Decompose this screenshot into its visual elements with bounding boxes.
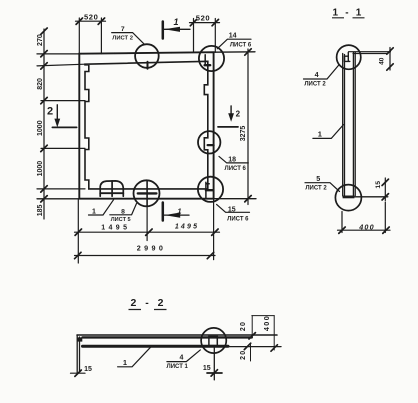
2-2 dim 400 line xyxy=(273,316,275,350)
svg-text:ЛИСТ 5: ЛИСТ 5 xyxy=(111,217,131,223)
svg-text:2: 2 xyxy=(236,109,241,118)
svg-text:7: 7 xyxy=(121,26,125,33)
top-right corner plate detail xyxy=(204,55,206,65)
detail circle bottom-right corner xyxy=(198,177,223,202)
svg-text:8: 8 xyxy=(121,208,125,215)
extension line x101 xyxy=(100,18,102,54)
2-2 hanging rib below circle xyxy=(213,346,215,380)
3275 ticks xyxy=(245,49,251,202)
top dimension line 520 left xyxy=(76,20,106,22)
svg-text:1000: 1000 xyxy=(37,161,44,177)
plan outer bottom edge extension xyxy=(37,198,256,200)
svg-text:1000: 1000 xyxy=(37,120,44,136)
svg-text:2990: 2990 xyxy=(137,243,167,252)
svg-text:185: 185 xyxy=(37,204,44,216)
detail circle top-middle xyxy=(135,44,159,68)
svg-text:18: 18 xyxy=(228,156,236,163)
svg-text:14: 14 xyxy=(229,33,237,40)
2-2 dim 20 top line xyxy=(251,316,253,338)
leader callout 15 plan xyxy=(217,204,250,212)
left chain ticks xyxy=(41,28,47,202)
left extension y100.6 xyxy=(41,100,85,102)
svg-text:3275: 3275 xyxy=(240,126,247,142)
svg-text:15: 15 xyxy=(375,181,382,189)
bottom dimension line 2990 xyxy=(75,255,216,257)
2-2 left end rib double xyxy=(77,335,79,374)
svg-text:1495: 1495 xyxy=(101,224,130,231)
top-middle circle tick detail xyxy=(147,62,149,69)
svg-text:ЛИСТ 6: ЛИСТ 6 xyxy=(230,43,252,49)
2-2 left 15 dim line xyxy=(71,372,86,374)
left dimension chain line xyxy=(43,29,45,219)
detail circle top-right corner xyxy=(199,46,224,71)
leader callout 18 xyxy=(219,156,248,163)
2-2 dim ticks xyxy=(244,333,277,352)
1-1 leader 4 xyxy=(304,65,339,79)
leader callout 1 dome xyxy=(89,200,114,215)
svg-text:1: 1 xyxy=(173,17,178,27)
svg-text:400: 400 xyxy=(358,223,375,232)
left extension y148.4 xyxy=(41,147,85,149)
1-1 panel left double line xyxy=(343,54,345,197)
leader callout 7 xyxy=(112,33,145,45)
svg-text:1: 1 xyxy=(92,209,96,216)
1-1 leader 1 xyxy=(313,125,344,139)
extension below left corner xyxy=(77,199,79,263)
2-2 dim 20 bottom line xyxy=(250,345,252,362)
1-1 top flange double line xyxy=(349,52,391,54)
svg-text:1: 1 xyxy=(177,207,181,216)
2-2 slab frame bottom chord xyxy=(83,345,229,348)
svg-text:ЛИСТ 6: ЛИСТ 6 xyxy=(227,217,249,223)
extension line x214 xyxy=(214,19,216,53)
1-1 leader 5 xyxy=(305,183,340,192)
dome horizontal band xyxy=(100,192,123,194)
2-2 slab bottom extension xyxy=(225,346,281,348)
1-1 bottom flange line xyxy=(354,196,387,198)
svg-text:ЛИСТ 2: ЛИСТ 2 xyxy=(304,81,326,87)
svg-text:400: 400 xyxy=(262,315,271,331)
1-1 top detail circle xyxy=(337,45,361,69)
bottom dimension line 1495 xyxy=(75,231,220,233)
detail circle bottom-middle xyxy=(134,180,160,206)
plan inner bottom edge extension xyxy=(37,188,85,190)
2-2 circle box detail xyxy=(209,336,217,345)
svg-text:40: 40 xyxy=(379,57,386,65)
extension line x191 xyxy=(193,19,195,52)
1-1 top hook detail xyxy=(345,52,350,61)
svg-text:520: 520 xyxy=(196,14,210,23)
svg-text:1: 1 xyxy=(123,358,127,367)
1-1 dim 40 line xyxy=(389,48,391,71)
right dimension 3275 line xyxy=(247,49,249,205)
2-2 right 15 tick xyxy=(207,370,222,376)
section marker 2 right xyxy=(230,106,232,117)
1-1 bottom detail circle xyxy=(335,185,361,211)
1-1 bottom bearing bar xyxy=(343,196,355,199)
extension below mid circle xyxy=(146,206,148,240)
section marker 1 bottom xyxy=(162,203,165,221)
svg-text:5: 5 xyxy=(316,174,320,183)
dome insert at bottom-left xyxy=(100,181,123,196)
leader callout 8 xyxy=(110,204,137,215)
svg-text:2 - 2: 2 - 2 xyxy=(130,297,166,309)
svg-text:ЛИСТ 6: ЛИСТ 6 xyxy=(225,166,247,172)
1-1 400 extensions xyxy=(342,202,385,233)
svg-text:15: 15 xyxy=(84,366,92,373)
top dimension line 520 right xyxy=(190,22,220,24)
2-2 left corner gusset xyxy=(77,337,82,341)
svg-text:20: 20 xyxy=(240,321,247,331)
2-2 slab top deck line xyxy=(77,334,277,336)
2-2 slab frame top chord xyxy=(83,336,252,338)
svg-text:4: 4 xyxy=(315,70,319,79)
svg-text:ЛИСТ 1: ЛИСТ 1 xyxy=(167,364,189,370)
plan inner top edge extension xyxy=(37,64,85,66)
bottom-right corner plate detail xyxy=(206,182,209,198)
2-2 leader 4 xyxy=(167,350,200,362)
extension line x79 xyxy=(78,18,80,54)
svg-text:4: 4 xyxy=(180,355,184,362)
1-1 panel right double line xyxy=(353,52,355,195)
svg-text:20: 20 xyxy=(240,350,247,360)
svg-text:1495: 1495 xyxy=(175,223,199,230)
svg-text:520: 520 xyxy=(84,13,98,22)
2-2 leader 1 xyxy=(118,346,152,367)
dome center rib xyxy=(111,181,113,196)
plan outer top edge extension xyxy=(37,52,255,54)
1-1 dim 15 line xyxy=(384,178,386,201)
detail circle middle-right xyxy=(198,131,220,153)
plan inner wall with notches xyxy=(85,61,208,189)
svg-text:1: 1 xyxy=(318,130,322,139)
svg-text:270: 270 xyxy=(37,34,44,46)
extension below right corner xyxy=(213,199,215,260)
bottom-middle tee detail xyxy=(138,192,157,194)
svg-text:820: 820 xyxy=(37,78,44,90)
2-2 left 15 tick xyxy=(75,370,81,376)
section marker 2 left xyxy=(56,105,58,123)
middle-right stub detail xyxy=(208,144,214,146)
2-2 detail circle xyxy=(201,328,226,353)
svg-text:ЛИСТ 2: ЛИСТ 2 xyxy=(112,35,133,41)
ticks top dims xyxy=(76,18,218,26)
2-2 right dims connector xyxy=(252,315,274,317)
leader callout 14 xyxy=(217,39,251,49)
bottom dim ticks xyxy=(75,229,219,259)
svg-text:2: 2 xyxy=(47,106,53,118)
svg-text:ЛИСТ 2: ЛИСТ 2 xyxy=(305,185,327,191)
svg-text:15: 15 xyxy=(203,365,211,372)
1-1 dim 400 line xyxy=(338,229,391,231)
plan outer wall xyxy=(79,52,213,199)
svg-text:15: 15 xyxy=(228,206,236,213)
svg-text:1 - 1: 1 - 1 xyxy=(332,7,363,18)
section marker 1 top xyxy=(162,22,165,39)
